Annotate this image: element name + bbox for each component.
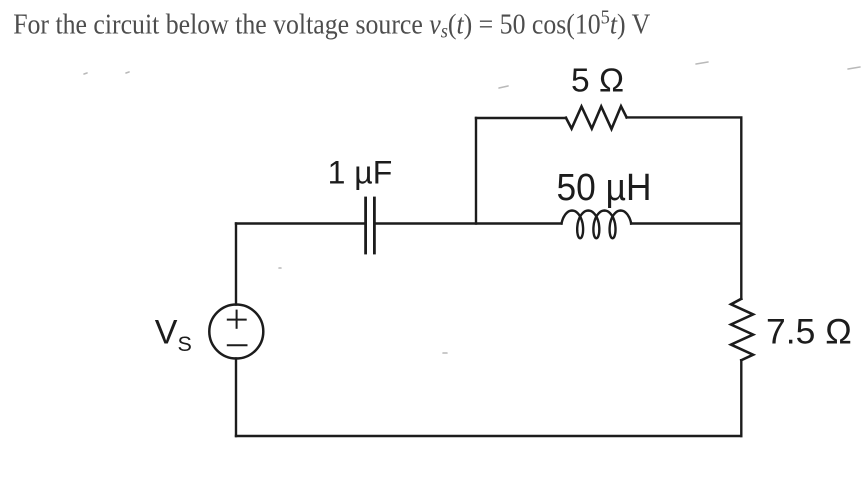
svg-text:VS: VS [155, 314, 192, 357]
svg-text:For the circuit below the volt: For the circuit below the voltage source… [13, 7, 651, 43]
svg-text:50 µH: 50 µH [557, 166, 652, 208]
svg-text:5 Ω: 5 Ω [571, 63, 624, 100]
svg-text:7.5 Ω: 7.5 Ω [766, 311, 852, 351]
svg-text:1 µF: 1 µF [328, 155, 393, 191]
